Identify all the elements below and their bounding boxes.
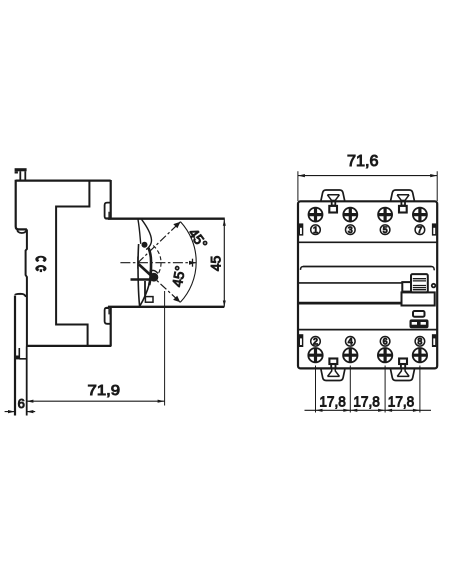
svg-text:17,8: 17,8 [319, 394, 346, 410]
svg-text:7: 7 [417, 225, 422, 235]
svg-text:17,8: 17,8 [388, 394, 415, 410]
svg-text:2: 2 [313, 337, 318, 347]
svg-text:17,8: 17,8 [353, 394, 380, 410]
svg-text:45: 45 [208, 256, 224, 272]
svg-text:6: 6 [18, 396, 25, 411]
svg-text:1: 1 [313, 225, 318, 235]
svg-text:71,6: 71,6 [347, 153, 379, 170]
svg-text:3: 3 [348, 225, 353, 235]
svg-text:5: 5 [383, 225, 388, 235]
svg-text:8: 8 [417, 337, 422, 347]
svg-text:4: 4 [348, 337, 353, 347]
svg-text:71,9: 71,9 [88, 382, 121, 399]
svg-text:6: 6 [383, 337, 388, 347]
